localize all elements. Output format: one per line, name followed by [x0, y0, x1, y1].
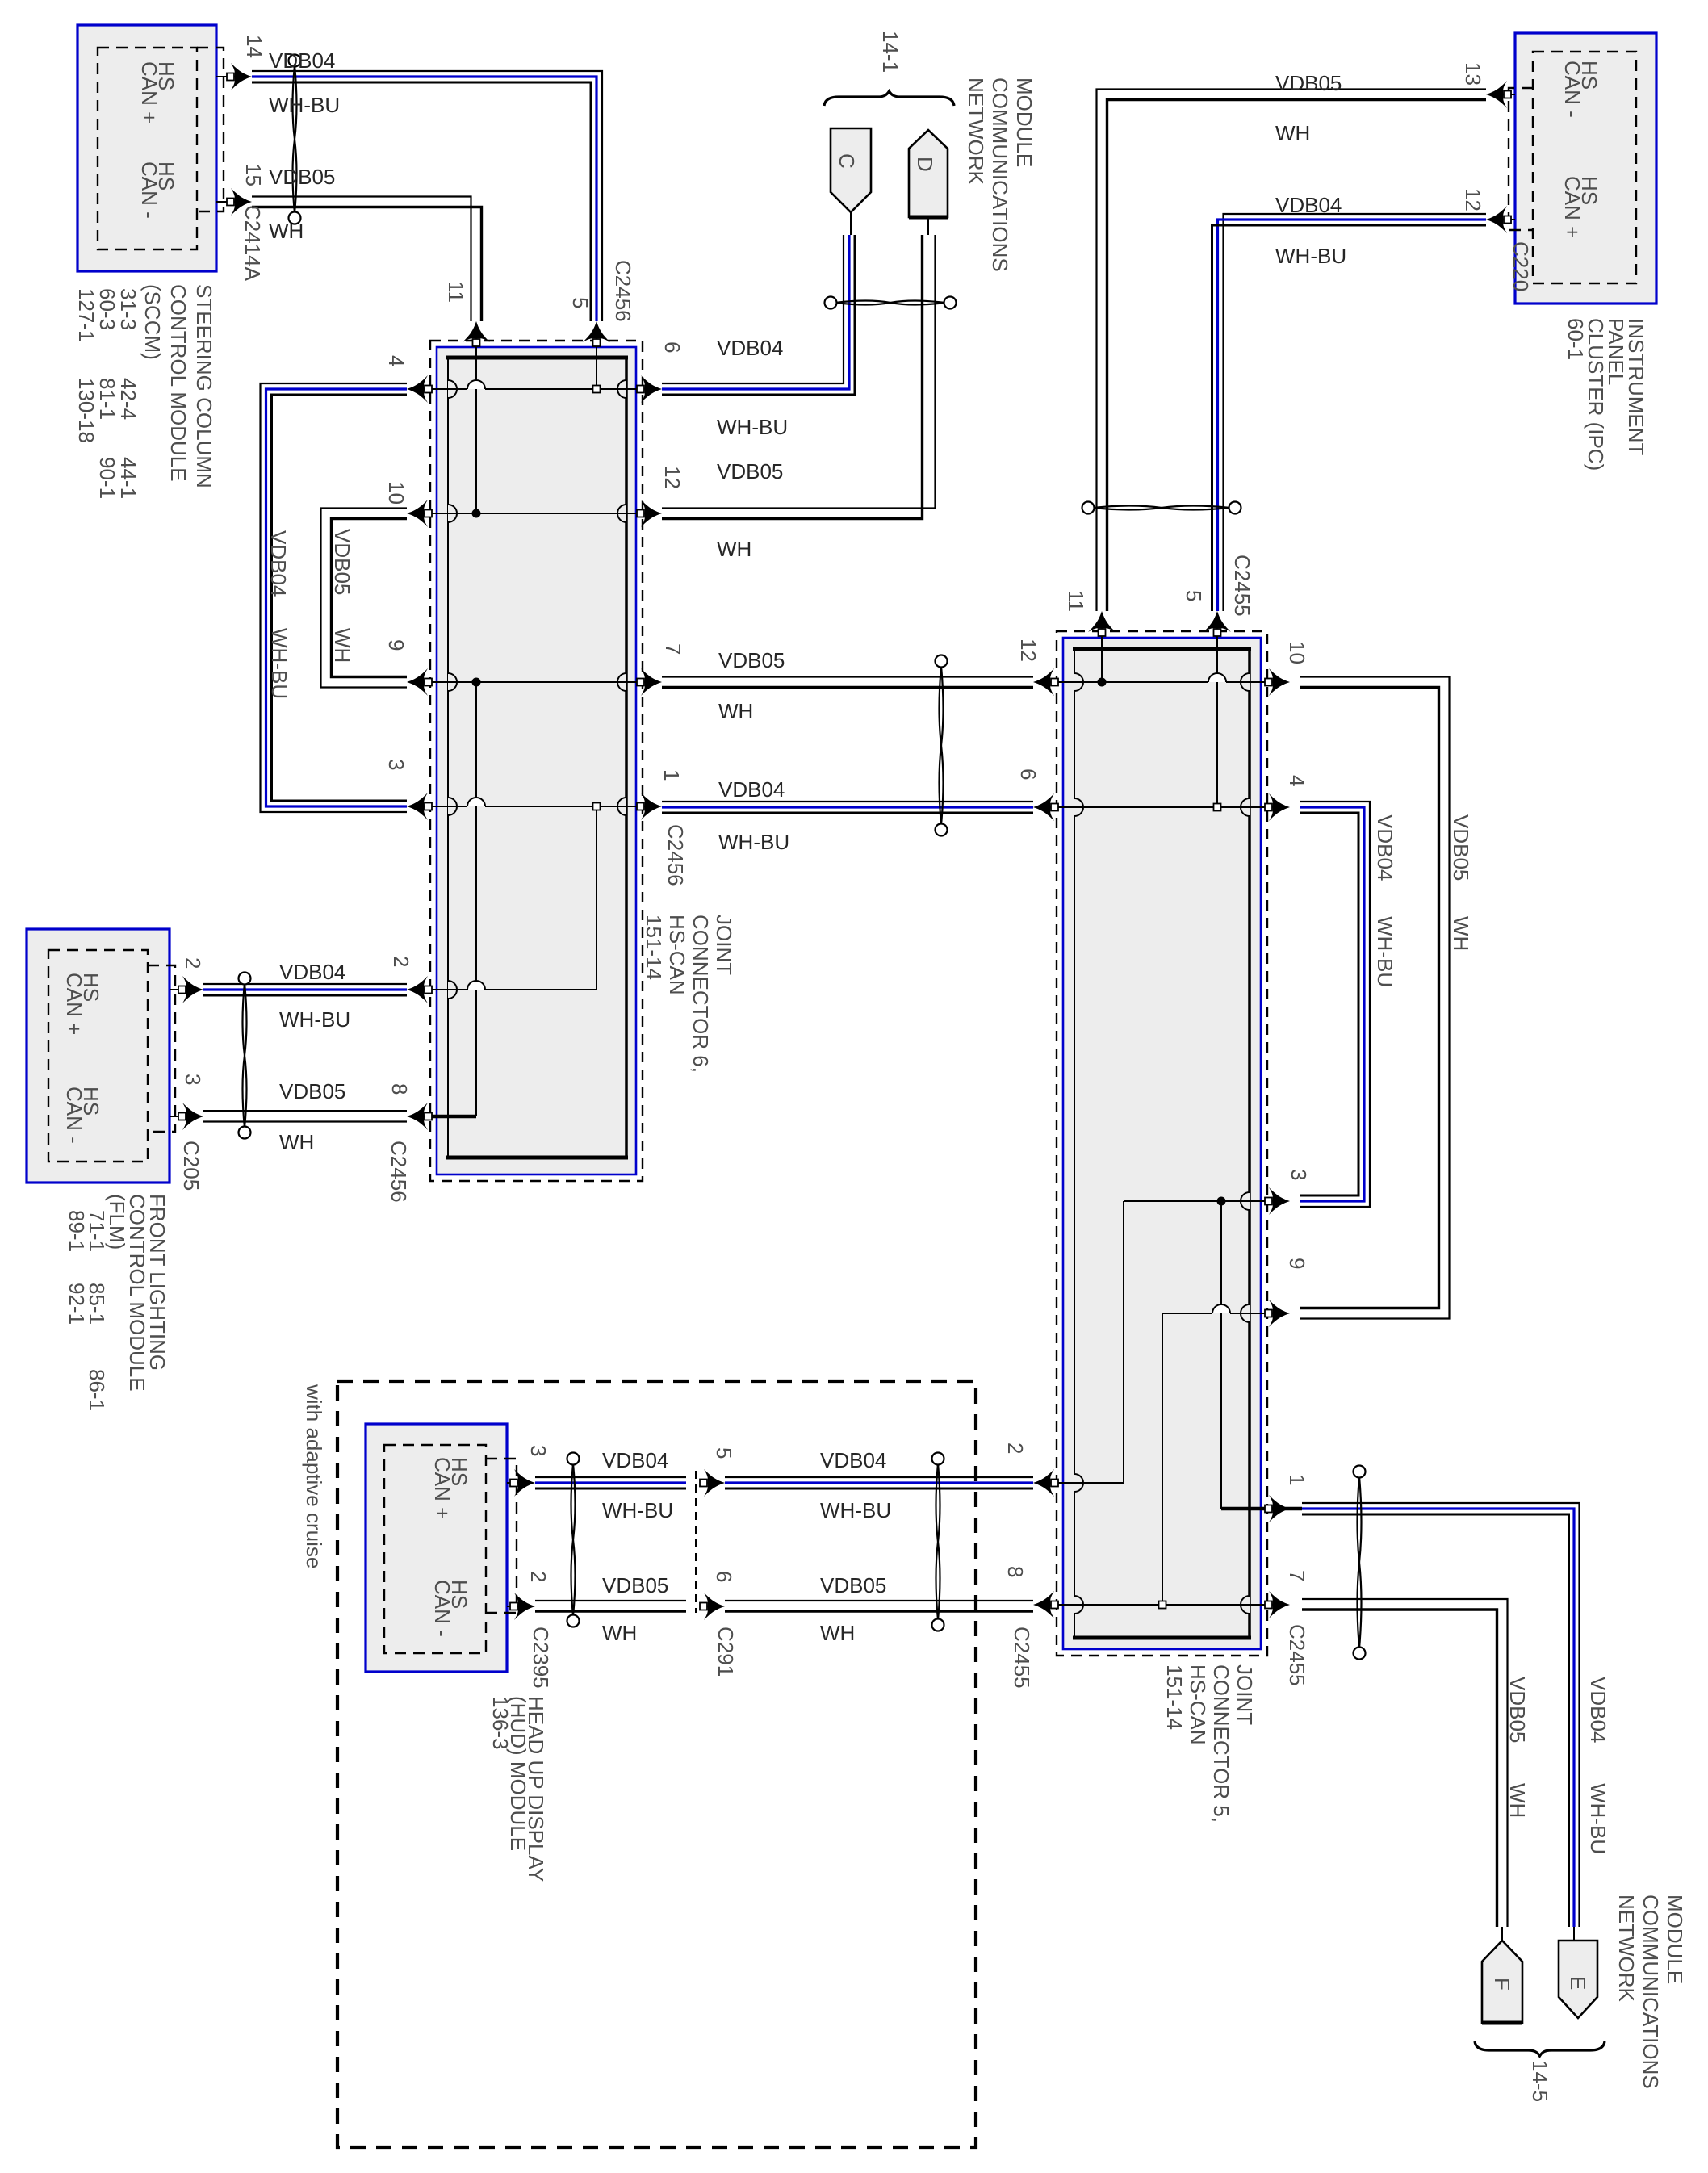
- svg-text:WH: WH: [330, 628, 354, 663]
- svg-text:C2456: C2456: [664, 824, 688, 886]
- svg-text:VDB04: VDB04: [717, 336, 783, 360]
- svg-text:WH: WH: [279, 1130, 314, 1154]
- svg-text:4: 4: [384, 355, 408, 366]
- svg-text:C291: C291: [714, 1627, 738, 1677]
- svg-text:WH-BU: WH-BU: [1275, 244, 1346, 268]
- svg-text:VDB04: VDB04: [1586, 1677, 1610, 1743]
- svg-text:WH: WH: [1449, 916, 1473, 951]
- svg-text:VDB05: VDB05: [1505, 1677, 1530, 1743]
- svg-text:1: 1: [659, 769, 684, 781]
- svg-text:C2456: C2456: [611, 260, 635, 322]
- svg-text:VDB05: VDB05: [718, 648, 785, 672]
- svg-text:6: 6: [1016, 768, 1040, 780]
- svg-text:VDB04: VDB04: [602, 1448, 668, 1472]
- svg-text:WH-BU: WH-BU: [1586, 1783, 1610, 1854]
- svg-text:VDB05: VDB05: [1449, 814, 1473, 881]
- svg-text:7: 7: [661, 643, 685, 655]
- svg-text:C205: C205: [179, 1141, 203, 1191]
- svg-text:5: 5: [1182, 590, 1206, 601]
- svg-text:F: F: [1490, 1978, 1514, 1991]
- svg-text:VDB05: VDB05: [717, 459, 783, 484]
- svg-text:VDB04: VDB04: [266, 530, 291, 597]
- svg-text:WH: WH: [1275, 121, 1310, 145]
- svg-text:WH-BU: WH-BU: [718, 830, 789, 854]
- svg-text:VDB05: VDB05: [1275, 71, 1342, 95]
- svg-text:VDB05: VDB05: [820, 1573, 886, 1597]
- svg-text:5: 5: [712, 1447, 736, 1459]
- svg-text:VDB04: VDB04: [820, 1448, 886, 1472]
- svg-text:WH-BU: WH-BU: [279, 1007, 350, 1032]
- svg-text:8: 8: [387, 1083, 412, 1095]
- svg-text:WH: WH: [717, 537, 751, 561]
- svg-text:7: 7: [1285, 1570, 1309, 1581]
- svg-text:WH-BU: WH-BU: [602, 1498, 673, 1522]
- svg-text:10: 10: [384, 481, 408, 505]
- svg-text:11: 11: [1064, 590, 1088, 612]
- svg-text:VDB05: VDB05: [269, 165, 335, 189]
- svg-text:2: 2: [526, 1571, 550, 1582]
- svg-text:3: 3: [384, 759, 408, 770]
- svg-text:1: 1: [1285, 1474, 1309, 1485]
- svg-text:15: 15: [241, 163, 266, 186]
- svg-text:WH: WH: [269, 219, 304, 243]
- svg-text:VDB05: VDB05: [279, 1079, 345, 1103]
- svg-text:WH: WH: [718, 699, 753, 723]
- svg-text:WH-BU: WH-BU: [269, 93, 340, 117]
- svg-text:3: 3: [181, 1074, 205, 1085]
- svg-text:4: 4: [1285, 775, 1309, 786]
- svg-text:VDB04: VDB04: [1373, 814, 1397, 881]
- svg-text:with adaptive cruise: with adaptive cruise: [302, 1384, 326, 1568]
- svg-text:VDB05: VDB05: [330, 529, 354, 595]
- svg-text:8: 8: [1003, 1566, 1028, 1577]
- svg-text:WH-BU: WH-BU: [1373, 916, 1397, 987]
- svg-text:C2455: C2455: [1285, 1624, 1309, 1686]
- svg-text:6: 6: [660, 341, 684, 353]
- svg-text:12: 12: [1016, 639, 1040, 662]
- svg-text:D: D: [913, 157, 937, 172]
- svg-text:C: C: [835, 153, 859, 169]
- svg-text:12: 12: [660, 466, 684, 489]
- svg-text:12: 12: [1461, 188, 1485, 211]
- svg-text:2: 2: [389, 956, 413, 967]
- svg-text:14-5: 14-5: [1528, 2060, 1552, 2102]
- svg-text:E: E: [1566, 1976, 1590, 1990]
- svg-text:VDB04: VDB04: [269, 48, 335, 73]
- svg-text:13: 13: [1461, 62, 1485, 86]
- svg-text:C2455: C2455: [1230, 555, 1254, 617]
- svg-text:VDB04: VDB04: [1275, 193, 1342, 217]
- svg-text:3: 3: [1287, 1169, 1311, 1180]
- svg-text:WH-BU: WH-BU: [267, 628, 291, 699]
- svg-text:5: 5: [568, 297, 592, 308]
- svg-text:9: 9: [384, 639, 408, 651]
- svg-text:C2455: C2455: [1010, 1627, 1034, 1689]
- svg-text:WH-BU: WH-BU: [717, 415, 788, 439]
- svg-text:14: 14: [242, 35, 266, 58]
- svg-text:WH: WH: [1505, 1783, 1530, 1818]
- svg-text:2: 2: [181, 957, 205, 969]
- svg-text:14-1: 14-1: [878, 31, 902, 73]
- svg-text:VDB04: VDB04: [279, 960, 345, 984]
- svg-text:C2395: C2395: [529, 1627, 553, 1689]
- svg-text:WH-BU: WH-BU: [820, 1498, 891, 1522]
- svg-text:VDB05: VDB05: [602, 1573, 668, 1597]
- svg-text:2: 2: [1003, 1442, 1028, 1454]
- svg-text:WH: WH: [602, 1621, 637, 1645]
- svg-text:C220: C220: [1509, 241, 1533, 291]
- svg-text:WH: WH: [820, 1621, 855, 1645]
- svg-text:6: 6: [712, 1571, 736, 1582]
- svg-text:10: 10: [1285, 641, 1309, 664]
- svg-text:C2456: C2456: [387, 1141, 411, 1203]
- svg-text:3: 3: [526, 1445, 550, 1456]
- svg-text:9: 9: [1285, 1258, 1309, 1269]
- svg-text:C2414A: C2414A: [241, 205, 265, 282]
- svg-text:VDB04: VDB04: [718, 777, 785, 802]
- svg-text:11: 11: [444, 281, 468, 303]
